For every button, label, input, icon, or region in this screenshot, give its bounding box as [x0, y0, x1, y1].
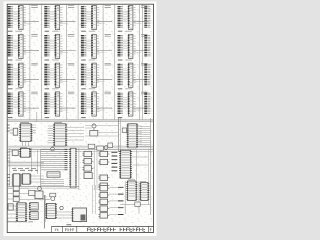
right vertical bus wire: [150, 118, 152, 215]
pin labels right of U4: [133, 7, 135, 25]
dash above title strip: [66, 224, 71, 226]
reference designator U6: [68, 35, 74, 37]
gate U40b: [98, 192, 109, 197]
buffer symbol with pullup: [50, 193, 56, 200]
reference designator U15: [105, 92, 111, 94]
address wires into U15: [86, 98, 92, 108]
gate U34c: [7, 197, 50, 202]
RAM chip U12 (4116): [128, 63, 133, 87]
chip type labels under row 1: [8, 30, 132, 32]
address wires into U10: [50, 69, 56, 79]
pin labels right of U14: [60, 94, 62, 112]
vertical bus wires of memory array: [30, 5, 142, 120]
title block dividers: [52, 226, 149, 232]
wires across middle: [85, 126, 118, 137]
RAM chip U6 (4116): [55, 34, 60, 58]
scale cell text: [55, 229, 59, 231]
vertical wires left block: [10, 148, 38, 186]
data wire from U6: [60, 51, 76, 53]
driver U37 lower half: [29, 212, 38, 220]
gate U40c: [98, 199, 109, 204]
drawing number cell: [150, 228, 151, 231]
RAM chip U8 (4116): [128, 34, 133, 58]
title strip top rule: [52, 225, 154, 227]
RAS/CAS horizontal bus wires: [7, 120, 153, 122]
gate pack U27: [21, 174, 31, 184]
row 3 right edge connector stubs: [144, 64, 150, 84]
gate U28a: [82, 151, 93, 156]
wire stub labels for RAM U6: [44, 36, 49, 56]
wires below U17: [23, 141, 29, 146]
wire stub v: [36, 112, 38, 122]
verticals around U32 U33: [125, 181, 139, 214]
reference designator U14: [68, 92, 74, 94]
address wires into U12: [123, 69, 129, 79]
reference designator U10: [68, 63, 74, 65]
data wire from U8: [133, 51, 149, 53]
multiplexer U19: [53, 124, 67, 146]
chip type labels under row 2: [8, 59, 132, 61]
pullup resistor R3: [60, 206, 63, 209]
data wire from U9: [23, 79, 39, 81]
reference designator U12: [141, 63, 147, 65]
address driver U17: [19, 124, 32, 142]
data wire from U15: [96, 108, 112, 110]
pin labels right of U16: [133, 94, 135, 112]
reference designator U3: [105, 6, 111, 8]
address wires into U4: [123, 11, 129, 21]
counter U33: [139, 183, 149, 201]
vertical wire right of RN2: [78, 148, 80, 190]
address wires into U8: [123, 40, 129, 50]
gate U35: [8, 204, 13, 210]
address wires into U6: [50, 40, 56, 50]
address wires into U13: [13, 98, 19, 108]
RAM chip U4 (4116): [128, 6, 133, 30]
wires right of U31: [133, 150, 149, 180]
address wires into U11: [86, 69, 92, 79]
RAM chip U15 (4116): [91, 92, 96, 116]
gate pack U26: [12, 174, 21, 186]
gate U34a: [7, 186, 28, 191]
RAM chip U3 (4116): [91, 6, 96, 30]
address wires into U1: [13, 11, 19, 21]
pin labels right of U5: [24, 36, 26, 54]
address wires into U16: [123, 98, 129, 108]
ground bus wire bottom: [7, 221, 33, 223]
gate U40a: [98, 186, 109, 191]
inverter bubble: [38, 187, 42, 191]
vertical wire left of ladder: [40, 149, 42, 188]
reference designator U1: [31, 6, 37, 8]
timer U36: [16, 203, 27, 222]
resistors bottom of middle band: [88, 143, 112, 150]
data wire from U14: [60, 108, 76, 110]
wire stub labels for RAM U12: [118, 64, 123, 84]
pin labels left of U19: [48, 126, 53, 143]
gate U30d: [98, 183, 109, 188]
wire stub labels for RAM U2: [44, 7, 49, 27]
label above U19: [54, 122, 62, 124]
title text: [88, 228, 145, 232]
data wire from U10: [60, 79, 76, 81]
DIP switch S1: [47, 172, 60, 177]
vertical wires bottom gates: [93, 185, 96, 214]
gate U40d: [98, 206, 109, 211]
transistor Q2: [51, 147, 55, 151]
RAM chip U10 (4116): [55, 63, 60, 87]
pin labels right of U10: [60, 65, 62, 83]
address wires into U7: [86, 40, 92, 50]
pin labels right of U3: [97, 7, 99, 25]
row 4 right edge connector stubs: [144, 93, 150, 113]
pin labels right of U6: [60, 36, 62, 54]
wire stub labels for RAM U14: [44, 93, 49, 113]
reference designator U13: [31, 92, 37, 94]
data wire from U11: [96, 79, 112, 81]
counter U32: [126, 181, 137, 200]
RAM chip U9 (4116): [18, 63, 23, 87]
gate U28b: [82, 159, 93, 164]
wire stub labels for RAM U10: [44, 64, 49, 84]
label above U25: [20, 146, 27, 148]
wire stub labels for RAM U13: [8, 93, 13, 113]
resistor pack RP1: [90, 131, 98, 137]
data wire from U3: [96, 22, 112, 24]
RAM chip U11 (4116): [91, 63, 96, 87]
RAM chip U13 (4116): [18, 92, 23, 116]
wire bundle left: [7, 162, 44, 166]
data wire from U13: [23, 108, 39, 110]
RAM chip U5 (4116): [18, 34, 23, 58]
sheet number text: [66, 228, 75, 231]
wire stub labels for RAM U4: [118, 7, 123, 27]
RAM chip U2 (4116): [55, 6, 60, 30]
vertical bus pair centre-right: [118, 118, 120, 152]
register U31: [119, 150, 132, 178]
RAM chip U7 (4116): [91, 34, 96, 58]
pin labels right of U22: [138, 126, 142, 144]
vertical wires gate area: [95, 150, 97, 190]
gate U28c: [82, 166, 93, 171]
bottom wire bundle left: [7, 186, 79, 188]
gate U30a: [98, 151, 109, 156]
gate U24: [12, 150, 18, 156]
address wires into U14: [50, 98, 56, 108]
row 2 right edge connector stubs: [144, 36, 150, 56]
address wires into U5: [13, 40, 19, 50]
chip type labels under row 4: [8, 117, 122, 119]
chip type labels under row 3: [8, 88, 132, 90]
row 1 right edge connector stubs: [144, 7, 150, 27]
wires right of U27: [30, 176, 44, 182]
resistor network RN2 strip: [69, 148, 77, 188]
RAM chip U1 (4116): [18, 6, 23, 30]
oscillator Y1: [35, 191, 43, 199]
wires right of U19: [66, 127, 84, 140]
output net dashes bottom: [118, 187, 124, 214]
right vertical bus wire 2: [147, 150, 149, 205]
left border stubs logic band: [7, 152, 10, 161]
wire stub labels for RAM U16: [118, 93, 123, 113]
RAM chip U14 (4116): [55, 92, 60, 116]
left border connector stubs mid: [7, 125, 10, 131]
small box left of U22: [122, 128, 126, 132]
net labels right of U17: [32, 125, 36, 133]
wire stub labels for RAM U1: [8, 7, 13, 27]
comparator U39: [72, 208, 87, 222]
wire below U32: [120, 202, 151, 206]
wires into U39: [56, 212, 73, 218]
wire stub labels for RAM U8: [118, 36, 123, 56]
reference designator U8: [141, 35, 147, 37]
driver U37 upper half: [29, 203, 38, 210]
gate U40e: [98, 213, 109, 218]
wire stub labels for RAM U15: [81, 93, 86, 113]
data wire from U4: [133, 22, 149, 24]
net name row: [12, 168, 38, 170]
wire stub labels for RAM U11: [81, 64, 86, 84]
wires U22 to right border: [140, 127, 151, 147]
gate U34b: [7, 191, 35, 196]
pin labels right of U2: [60, 7, 62, 25]
address wires into U2: [50, 11, 56, 21]
pin labels right of U9: [24, 65, 26, 83]
data wire from U1: [23, 22, 39, 24]
wire stub labels for RAM U3: [81, 7, 86, 27]
reference designator U2: [68, 6, 74, 8]
wire stub labels for RAM U5: [8, 36, 13, 56]
data wire from U2: [60, 22, 76, 24]
pin labels right of U15: [97, 94, 99, 112]
pin labels right of U11: [97, 65, 99, 83]
left border stubs lower: [7, 175, 10, 185]
reference designator U9: [31, 63, 37, 65]
gate U30c: [98, 175, 109, 180]
ladder wires lower: [41, 180, 65, 186]
pin labels right of U13: [24, 94, 26, 112]
data wire from U7: [96, 51, 112, 53]
label above U17: [20, 122, 29, 124]
main vertical bus at x44: [38, 195, 50, 228]
RAM chip U16 (4116): [128, 92, 133, 116]
latch U22: [127, 124, 139, 148]
transistor Q1: [92, 124, 96, 131]
pin labels right of U12: [133, 65, 135, 83]
gate pack U25: [19, 148, 31, 157]
shift register U38: [45, 204, 57, 219]
address bus bundle: [7, 146, 153, 151]
scanner background: [0, 0, 159, 239]
wire stub labels for RAM U9: [8, 64, 13, 84]
reference designator U11: [105, 63, 111, 65]
pin labels right of U7: [97, 36, 99, 54]
pin labels right of U1: [24, 7, 26, 25]
labels above U32 U33: [128, 180, 146, 182]
reference designator U7: [105, 35, 111, 37]
address wires into U9: [13, 69, 19, 79]
schematic border frame: [7, 4, 153, 232]
data wire from U5: [23, 51, 39, 53]
address ladder wires: [41, 149, 68, 170]
reference designator U16: [141, 92, 147, 94]
pin labels right of U8: [133, 36, 135, 54]
data wire from U12: [133, 79, 149, 81]
net labels dark dashes: [112, 152, 118, 171]
gate output wires bottom right: [109, 187, 118, 214]
gate U30b: [98, 159, 109, 164]
address wires into U3: [86, 11, 92, 21]
reference designator U4: [141, 6, 147, 8]
wire stub labels for RAM U7: [81, 36, 86, 56]
paper sheet: [4, 2, 157, 237]
gate U18: [10, 128, 18, 135]
reference designator U5: [31, 35, 37, 37]
border stub wires bottom left: [7, 206, 17, 218]
data wire from U16: [133, 108, 149, 110]
small box mid bottom-left: [29, 190, 35, 195]
latch box U29: [84, 173, 92, 179]
